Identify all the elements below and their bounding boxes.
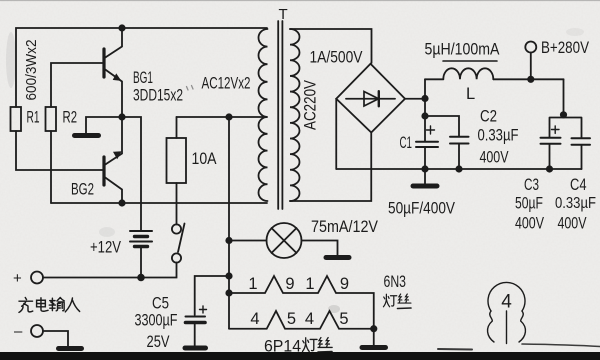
labels filament pins 1 9 1 9 <box>248 275 349 293</box>
wire R1 bottom to BG2 base <box>16 131 103 170</box>
svg-text:5: 5 <box>287 310 296 328</box>
labels C3 C4 values <box>515 175 596 233</box>
wire R2 top to BG1 base <box>51 63 103 107</box>
capacitor C3 (electrolytic) <box>541 126 561 169</box>
node BG2 collector on lower rail <box>118 199 125 206</box>
label 充电输入 (charging input) <box>19 298 80 313</box>
wire emitter junction to chassis ground <box>86 117 122 133</box>
svg-text:50µF: 50µF <box>515 194 543 213</box>
node B+ junction <box>527 76 534 83</box>
svg-text:5µH/100mA: 5µH/100mA <box>425 40 501 59</box>
svg-text:L: L <box>466 85 475 103</box>
choke L 5uH/100mA <box>425 68 564 79</box>
node bridge output <box>421 95 428 102</box>
label 5uH/100mA <box>425 40 501 59</box>
lamp 75mA/12V <box>229 223 338 258</box>
wire bridge plus output up to L <box>405 79 425 98</box>
wire + input to switch <box>43 263 177 278</box>
terminal + charge input <box>13 270 43 287</box>
svg-text:B+280V: B+280V <box>541 38 590 57</box>
transistor BG2 <box>104 117 122 203</box>
node filament row1 tap <box>225 289 232 296</box>
resistor R1 <box>11 107 40 131</box>
svg-text:25V: 25V <box>147 333 170 351</box>
wire C5 stub <box>195 276 229 315</box>
svg-text:BG1: BG1 <box>133 68 153 87</box>
svg-text:9: 9 <box>285 275 294 293</box>
node C3 bottom <box>546 165 553 172</box>
transformer primary winding AC12Vx2 <box>259 29 268 201</box>
svg-text:10A: 10A <box>192 149 218 168</box>
svg-text:600/3Wx2: 600/3Wx2 <box>23 40 40 101</box>
label C2 0.33uF 400V <box>478 107 519 167</box>
switch S <box>172 183 185 263</box>
wire top rail (BG1 collector to primary top) <box>16 28 267 107</box>
ground (- input) <box>59 346 82 351</box>
svg-text:400V: 400V <box>480 148 509 167</box>
transistor BG1 <box>104 28 122 117</box>
ground (lamp) <box>326 255 349 260</box>
ditto marks (scan) <box>187 86 194 91</box>
svg-text:0.33µF: 0.33µF <box>555 195 596 212</box>
svg-text:1: 1 <box>248 275 257 293</box>
node C1 top <box>421 112 428 119</box>
svg-text:400V: 400V <box>515 214 544 233</box>
svg-text:T: T <box>279 6 288 23</box>
svg-text:+: + <box>13 270 22 287</box>
svg-text:AC12Vx2: AC12Vx2 <box>202 74 251 93</box>
node BG1 collector on top rail <box>118 24 125 31</box>
label C5 3300uF 25V <box>135 295 178 352</box>
ground (emitter) <box>75 133 99 138</box>
node C1 bottom / ground rail <box>421 165 428 172</box>
wire secondary top to bridge <box>290 29 372 63</box>
ground (C5) <box>185 346 206 351</box>
node centre-tap feeder <box>225 113 232 120</box>
terminal B+280V <box>525 42 536 80</box>
capacitor C4 0.33uF <box>572 138 591 169</box>
node C5 tap <box>225 272 232 279</box>
svg-text:4: 4 <box>250 310 259 328</box>
bridge rectifier 1A/500V <box>336 64 405 133</box>
svg-text:50µF/400V: 50µF/400V <box>388 199 456 218</box>
wire to filter ground <box>424 169 426 184</box>
wire centre tap down (feeder column) <box>228 117 230 329</box>
page bottom edge lines <box>438 348 472 351</box>
svg-text:5: 5 <box>339 310 348 328</box>
svg-text:AC220V: AC220V <box>302 80 320 130</box>
capacitor C5 3300uF/25V <box>186 306 207 346</box>
wire bridge minus to filter ground rail <box>335 99 337 169</box>
wire lower rail (BG2 collector to primary bottom) <box>51 202 267 204</box>
node C2 bottom <box>455 165 462 172</box>
svg-text:4: 4 <box>305 310 314 328</box>
svg-text:3300µF: 3300µF <box>135 312 178 330</box>
wire - input to ground <box>43 331 68 346</box>
label BG1 / 3DD15x2 <box>133 68 183 105</box>
ground (filter) <box>413 184 437 189</box>
label underline <box>443 60 497 62</box>
svg-text:6N3: 6N3 <box>384 272 407 291</box>
wire emitter junction to battery top <box>122 117 141 230</box>
resistor R2 <box>46 107 78 131</box>
svg-text:R2: R2 <box>63 109 78 127</box>
labels filament pins 4 5 4 5 <box>250 310 348 328</box>
svg-text:4: 4 <box>501 292 512 313</box>
transformer secondary winding AC220V <box>290 29 300 201</box>
svg-text:1: 1 <box>305 275 314 293</box>
filament winding 6N3 (row 1) <box>229 276 374 329</box>
transformer T core <box>278 21 282 209</box>
node emitter junction <box>118 113 125 120</box>
svg-text:+12V: +12V <box>90 238 122 257</box>
wire L output down to C3/C4 <box>563 79 565 115</box>
wire filter ground rail <box>336 168 581 170</box>
wire filament junction to ground <box>373 329 375 345</box>
tube symbol (valve outline with pin 4) <box>488 282 526 343</box>
svg-text:C2: C2 <box>480 107 497 126</box>
svg-text:R1: R1 <box>27 109 40 127</box>
node filament right junction <box>370 325 377 332</box>
wire C3/C4 top bar <box>550 118 582 138</box>
svg-text:C5: C5 <box>152 295 169 313</box>
svg-text:BG2: BG2 <box>71 180 94 199</box>
svg-text:9: 9 <box>340 275 349 293</box>
svg-text:C3: C3 <box>524 175 539 194</box>
svg-text:1A/500V: 1A/500V <box>310 48 364 67</box>
ground (filament) <box>362 345 386 350</box>
capacitor C1 (electrolytic, in main leg) <box>416 99 438 169</box>
node C3/C4 top <box>560 111 567 118</box>
wire secondary bottom to bridge <box>290 133 371 201</box>
wire R2 bottom to lower rail <box>50 131 52 203</box>
filament winding 6P14 (row 2) <box>229 311 374 329</box>
svg-text:–: – <box>14 323 23 340</box>
svg-text:C1: C1 <box>400 134 413 152</box>
wire fuse top to transformer centre tap <box>177 116 268 118</box>
fuse 10A <box>167 117 187 183</box>
node lamp tap <box>225 237 232 244</box>
battery +12V <box>130 231 152 278</box>
svg-text:400V: 400V <box>558 214 587 233</box>
svg-text:75mA/12V: 75mA/12V <box>311 217 379 236</box>
node battery bottom junction <box>137 274 145 282</box>
svg-text:3DD15x2: 3DD15x2 <box>133 86 183 105</box>
capacitor C2 0.33uF <box>425 116 469 169</box>
svg-text:0.33µF: 0.33µF <box>478 126 519 145</box>
scan black bar bottom <box>0 352 600 360</box>
svg-text:C4: C4 <box>570 175 587 194</box>
terminal - charge input <box>14 323 43 340</box>
